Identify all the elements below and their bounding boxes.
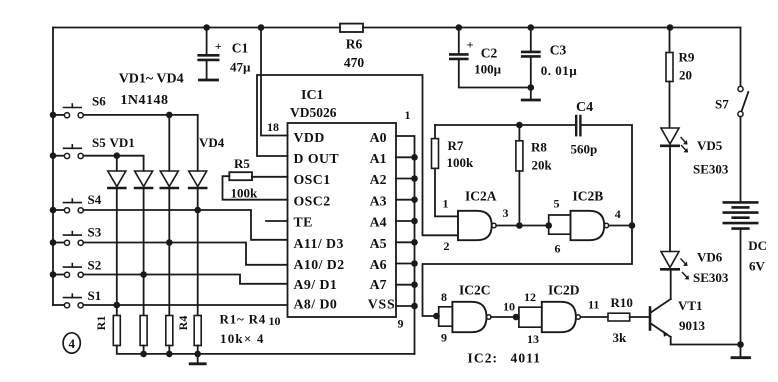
- diode VD2: [135, 157, 153, 316]
- svg-text:47µ: 47µ: [230, 60, 251, 75]
- svg-text:12: 12: [524, 290, 536, 304]
- wire bottom ground rail: [117, 346, 415, 358]
- svg-text:S5: S5: [92, 135, 106, 150]
- svg-text:8: 8: [441, 290, 447, 304]
- svg-text:A11/ D3: A11/ D3: [294, 236, 344, 251]
- svg-text:11: 11: [588, 298, 599, 312]
- capacitor C2: [450, 24, 531, 87]
- svg-text:1N4148: 1N4148: [120, 93, 168, 108]
- svg-text:C3: C3: [550, 43, 567, 58]
- wire IC2B output: [609, 225, 632, 227]
- label R1~R4 value: [220, 311, 267, 346]
- diode VD6: [661, 250, 729, 286]
- ground under C3: [522, 99, 539, 102]
- svg-text:SE303: SE303: [693, 270, 729, 285]
- svg-text:9: 9: [441, 330, 447, 344]
- wire VDD pin 18 to rail: [261, 28, 288, 136]
- svg-text:VSS: VSS: [368, 297, 396, 312]
- svg-text:18: 18: [267, 120, 279, 134]
- svg-text:IC2D: IC2D: [548, 283, 580, 298]
- svg-text:S2: S2: [88, 258, 102, 273]
- svg-text:A6: A6: [370, 257, 387, 272]
- capacitor C4: [571, 100, 598, 157]
- diode VD5: [661, 128, 729, 251]
- IC1 left pin labels: [294, 130, 345, 312]
- wire TE stub: [266, 220, 288, 222]
- ground at R1-R4: [190, 354, 205, 364]
- svg-text:4: 4: [615, 207, 621, 221]
- svg-text:0. 01µ: 0. 01µ: [541, 63, 578, 78]
- svg-text:3k: 3k: [613, 330, 628, 345]
- svg-text:TE: TE: [294, 215, 313, 230]
- switch S2: [50, 258, 102, 278]
- svg-text:R10: R10: [611, 295, 633, 310]
- svg-text:R9: R9: [679, 50, 695, 65]
- resistor R10: [608, 295, 633, 345]
- svg-text:S4: S4: [88, 192, 102, 207]
- wire left bus: [52, 28, 54, 306]
- resistor R6: [340, 24, 364, 70]
- svg-text:A7: A7: [370, 277, 387, 292]
- svg-text:IC1: IC1: [301, 88, 324, 103]
- svg-text:IC2B: IC2B: [573, 188, 604, 203]
- wire R5 to OSC1: [252, 176, 288, 178]
- svg-text:R4: R4: [176, 316, 190, 331]
- resistor R7: [432, 125, 475, 216]
- svg-text:R6: R6: [346, 37, 363, 52]
- svg-text:S6: S6: [92, 94, 106, 109]
- resistor R5: [229, 156, 258, 201]
- svg-text:9013: 9013: [679, 318, 706, 333]
- svg-text:VD6: VD6: [697, 250, 723, 265]
- junction C1 top: [203, 24, 210, 31]
- op-amp gate IC2C: [439, 283, 515, 345]
- svg-text:OSC1: OSC1: [294, 172, 331, 187]
- svg-text:2: 2: [444, 239, 450, 253]
- svg-text:VD4: VD4: [199, 135, 225, 150]
- wire IC2D output: [580, 316, 608, 318]
- svg-text:10: 10: [269, 314, 281, 328]
- svg-text:R5: R5: [234, 156, 250, 171]
- figure number 4: [63, 333, 80, 353]
- svg-text:10: 10: [503, 299, 515, 313]
- svg-text:+: +: [467, 38, 474, 52]
- wire C4 to IC2B output: [580, 125, 632, 226]
- svg-text:100k: 100k: [447, 155, 475, 170]
- svg-text:OSC2: OSC2: [294, 193, 331, 208]
- svg-text:DC: DC: [748, 238, 767, 253]
- op-amp gate IC2D: [519, 283, 599, 347]
- wire S2 row to pin A9/D1: [83, 275, 287, 284]
- svg-text:C1: C1: [232, 41, 249, 56]
- svg-text:S3: S3: [88, 225, 102, 240]
- svg-text:10k× 4: 10k× 4: [220, 331, 265, 346]
- IC1 right pin labels: [368, 130, 396, 312]
- svg-text:20k: 20k: [532, 158, 553, 173]
- capacitor C3: [522, 24, 577, 99]
- wire IC2C output: [491, 316, 519, 318]
- switch S3: [50, 225, 102, 246]
- svg-text:A3: A3: [370, 193, 387, 208]
- svg-text:SE303: SE303: [693, 162, 729, 177]
- svg-text:5: 5: [554, 197, 560, 211]
- transistor VT1: [650, 270, 706, 345]
- wire top supply rail left segment: [53, 27, 340, 29]
- svg-text:S1: S1: [88, 288, 102, 303]
- svg-text:+: +: [215, 39, 222, 53]
- svg-text:C2: C2: [481, 46, 498, 61]
- wire IC2A output: [496, 225, 549, 227]
- resistor R2: [140, 316, 147, 346]
- svg-text:R7: R7: [448, 138, 464, 153]
- ground under C1: [200, 79, 218, 82]
- switch S5: [50, 135, 107, 159]
- capacitor C1: [199, 28, 251, 79]
- svg-text:6V: 6V: [749, 259, 766, 274]
- svg-text:VD5026: VD5026: [290, 105, 337, 120]
- svg-text:A5: A5: [370, 236, 387, 251]
- diode VD3: [160, 115, 178, 316]
- battery DC 6V: [724, 202, 767, 344]
- diode VD1: [108, 156, 126, 316]
- wire emitter to battery minus: [671, 344, 741, 346]
- wire R5 to OSC2: [223, 176, 288, 200]
- switch S1: [53, 288, 101, 308]
- svg-text:13: 13: [527, 332, 539, 346]
- svg-text:IC2C: IC2C: [459, 283, 491, 298]
- svg-text:9: 9: [398, 317, 404, 331]
- resistor R1: [94, 316, 120, 346]
- wire R10 to VT1 base: [630, 316, 649, 318]
- resistor R4: [176, 316, 201, 346]
- svg-text:100µ: 100µ: [474, 62, 502, 77]
- wire top supply rail right segment: [363, 27, 741, 29]
- svg-text:A1: A1: [370, 151, 387, 166]
- op IC1 VD5026 box: [288, 88, 397, 317]
- svg-text:VDD: VDD: [294, 130, 325, 145]
- svg-text:D OUT: D OUT: [294, 151, 340, 166]
- svg-text:R8: R8: [531, 140, 547, 155]
- svg-text:A9/ D1: A9/ D1: [294, 277, 338, 292]
- resistor R8: [516, 125, 553, 226]
- svg-text:S7: S7: [715, 97, 729, 112]
- svg-text:20: 20: [679, 68, 692, 83]
- svg-text:A4: A4: [370, 215, 387, 230]
- svg-text:VD1: VD1: [110, 135, 135, 150]
- svg-text:A8/ D0: A8/ D0: [294, 297, 338, 312]
- svg-text:A0: A0: [370, 130, 387, 145]
- svg-text:A10/ D2: A10/ D2: [294, 257, 345, 272]
- svg-text:560p: 560p: [571, 142, 598, 157]
- wire S3 row to pin A10/D2: [83, 243, 287, 265]
- svg-text:IC2A: IC2A: [465, 188, 497, 203]
- ground bottom right: [732, 345, 750, 358]
- svg-text:VT1: VT1: [678, 298, 703, 313]
- svg-text:4: 4: [68, 336, 75, 351]
- switch S7: [715, 28, 748, 203]
- wire D OUT to IC2A input: [257, 75, 458, 235]
- diode VD4: [189, 115, 207, 316]
- resistor R3: [166, 316, 173, 346]
- wire oscillator top line: [435, 124, 576, 126]
- IC1 right pin stubs and bus: [396, 136, 418, 354]
- svg-text:IC2: 4011: IC2: 4011: [468, 350, 542, 365]
- svg-text:1: 1: [405, 108, 411, 122]
- svg-text:R1~ R4: R1~ R4: [220, 311, 267, 326]
- wire S6 row to VD3 VD4: [83, 114, 197, 116]
- wire S4 row to pin A11/D3: [83, 210, 287, 240]
- svg-text:C4: C4: [576, 100, 593, 115]
- svg-text:6: 6: [555, 242, 561, 256]
- resistor R9: [666, 24, 695, 127]
- svg-text:A2: A2: [370, 172, 387, 187]
- svg-text:R1: R1: [94, 316, 108, 331]
- svg-text:470: 470: [344, 55, 365, 70]
- svg-text:VD5: VD5: [697, 138, 723, 153]
- switch S4: [50, 192, 102, 213]
- op-amp gate IC2B: [549, 188, 621, 255]
- svg-text:3: 3: [503, 206, 509, 220]
- wire S1 row to pin A8/D0: [83, 304, 287, 306]
- svg-text:100k: 100k: [231, 186, 259, 201]
- svg-text:VD1~ VD4: VD1~ VD4: [119, 72, 184, 87]
- switch S6: [50, 94, 107, 119]
- wire S5 row to VD1 VD2: [83, 155, 143, 157]
- wire IC2B output to IC2C input: [423, 226, 633, 317]
- svg-text:1: 1: [443, 197, 449, 211]
- op-amp gate IC2A: [443, 188, 509, 253]
